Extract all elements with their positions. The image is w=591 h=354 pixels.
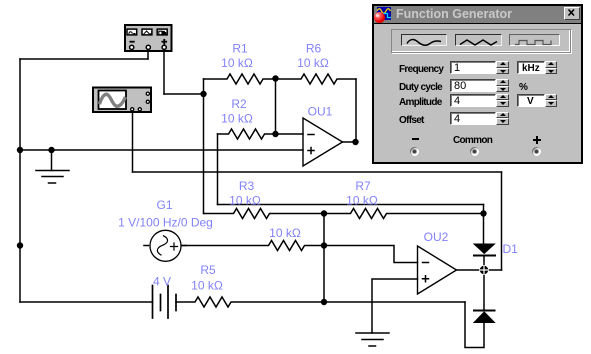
amplitude spinner	[496, 94, 509, 107]
svg-text:G1: G1	[156, 198, 172, 212]
wire right leg to node circle	[488, 269, 502, 271]
kHz spinner	[545, 61, 557, 74]
dialog body	[374, 23, 581, 162]
junction R4 right	[321, 242, 327, 248]
wire top horizontal to left rail	[20, 58, 148, 60]
op-amp OU1	[303, 118, 343, 166]
wire R6 right lead down to OU1 output	[355, 79, 357, 142]
wire to OU1 plus input	[20, 149, 303, 151]
wire OU2 minus input	[324, 246, 418, 263]
sine wave button (selected)	[401, 34, 447, 47]
wire down to D1 net	[483, 205, 485, 214]
wire OU1 output	[343, 141, 356, 143]
resistor R3	[204, 209, 325, 219]
frequency spinner	[496, 61, 509, 74]
common terminal label	[453, 135, 492, 146]
frequency label	[399, 64, 443, 75]
wire R2 branch horizontal to right	[218, 204, 484, 206]
wire long horizontal under dialog	[133, 171, 502, 173]
junction node A	[200, 91, 206, 97]
resistor R5	[176, 297, 324, 307]
function generator icon XFG1	[125, 25, 172, 51]
wire D1 anode	[483, 214, 485, 245]
minus terminal	[410, 147, 419, 156]
AC source G1	[144, 230, 186, 261]
svg-text:10 kΩ: 10 kΩ	[229, 194, 261, 208]
resistor R6	[276, 74, 357, 84]
svg-text:10 kΩ: 10 kΩ	[346, 194, 378, 208]
node circle OU2 output D1	[480, 266, 489, 275]
svg-text:10 kΩ: 10 kΩ	[221, 56, 253, 70]
svg-text:OU2: OU2	[424, 230, 449, 244]
wire plus to node A	[164, 93, 204, 95]
resistor R2	[218, 129, 276, 139]
wire G1 vertical branch	[323, 214, 325, 303]
window icon waveform	[377, 7, 391, 20]
duty cycle field	[450, 79, 496, 92]
wire bottom right corner	[465, 302, 484, 348]
amplitude field	[450, 94, 496, 107]
diode D1	[474, 244, 495, 256]
duty cycle spinner	[496, 79, 509, 92]
common terminal	[470, 147, 479, 156]
wire bottom left to battery	[20, 301, 153, 303]
junction D1 top	[480, 210, 486, 216]
amplitude label	[399, 97, 442, 108]
wire right leg down	[501, 172, 503, 270]
junction OU1 output	[352, 139, 358, 145]
percent label	[519, 82, 527, 93]
triangle wave button	[455, 34, 502, 47]
junction bottom net	[321, 299, 327, 305]
svg-text:10 kΩ: 10 kΩ	[191, 279, 223, 293]
op-amp OU2	[418, 246, 457, 294]
junction R1 right	[272, 75, 278, 81]
wire to OU1 minus input	[276, 133, 304, 135]
wire D2 to node circle	[483, 275, 485, 311]
resistor R4	[181, 241, 324, 251]
wire XFG1 plus down	[163, 50, 165, 95]
window title text	[396, 7, 512, 21]
svg-text:OU1: OU1	[308, 105, 333, 119]
window icon red ball	[374, 12, 385, 23]
junction R3 R7	[321, 210, 327, 216]
junction left rail G1	[17, 242, 23, 248]
svg-text:1 V/100 Hz/0 Deg: 1 V/100 Hz/0 Deg	[118, 216, 213, 230]
V field	[517, 94, 545, 107]
duty cycle label	[399, 82, 442, 93]
square wave button (disabled)	[509, 34, 560, 47]
offset spinner	[496, 112, 509, 125]
svg-text:10 kΩ: 10 kΩ	[269, 226, 301, 240]
svg-text:R7: R7	[355, 179, 371, 193]
offset field	[450, 112, 496, 125]
plus terminal label	[533, 139, 541, 141]
wire node A down left branch	[203, 94, 205, 214]
ground GND1	[36, 150, 69, 183]
wire R1R2 right vertical	[275, 79, 277, 134]
junction ground GND1 tap	[48, 147, 54, 153]
wire OU2 output	[457, 269, 480, 271]
wire D1 cathode to node circle	[483, 256, 485, 266]
kHz field	[517, 61, 545, 74]
XFG1 terminal common	[146, 45, 150, 49]
plus terminal	[532, 147, 541, 156]
junction left rail plus wire	[17, 147, 23, 153]
svg-text:R2: R2	[231, 97, 247, 111]
wire scope terminal down	[132, 113, 134, 172]
XFG1 terminal +	[162, 45, 166, 49]
wire bottom net right	[324, 301, 465, 303]
svg-text:R5: R5	[200, 263, 216, 277]
diode D2	[474, 311, 495, 323]
wire R2 left lead down	[217, 134, 219, 205]
battery V1 4V	[153, 286, 177, 319]
wire left rail vertical	[19, 59, 21, 302]
svg-text:R1: R1	[232, 42, 248, 56]
resistor R7	[324, 209, 484, 219]
wire OU2 plus input from ground	[372, 279, 418, 333]
svg-text:R6: R6	[306, 42, 322, 56]
function generator window title bar	[374, 6, 581, 24]
svg-text:D1: D1	[503, 242, 519, 256]
offset label	[399, 115, 424, 126]
ground GND2	[356, 333, 389, 346]
svg-text:4 V: 4 V	[153, 275, 171, 289]
junction R2 right	[272, 131, 278, 137]
svg-text:10 kΩ: 10 kΩ	[221, 112, 253, 126]
wire XFG1 common down	[147, 50, 149, 60]
svg-text:R3: R3	[239, 179, 255, 193]
XFG1 plus label	[162, 39, 168, 45]
waveform selector panel	[391, 29, 571, 53]
frequency field	[450, 61, 496, 74]
close button	[564, 7, 580, 20]
XFG1 terminal -	[130, 45, 134, 49]
wire node A up to R1	[203, 79, 205, 94]
V spinner	[545, 94, 557, 107]
resistor R1	[204, 74, 276, 84]
minus terminal label	[412, 138, 419, 140]
XFG1 minus label	[130, 41, 135, 43]
svg-text:10 kΩ: 10 kΩ	[297, 56, 329, 70]
oscilloscope XSC1	[93, 88, 151, 113]
